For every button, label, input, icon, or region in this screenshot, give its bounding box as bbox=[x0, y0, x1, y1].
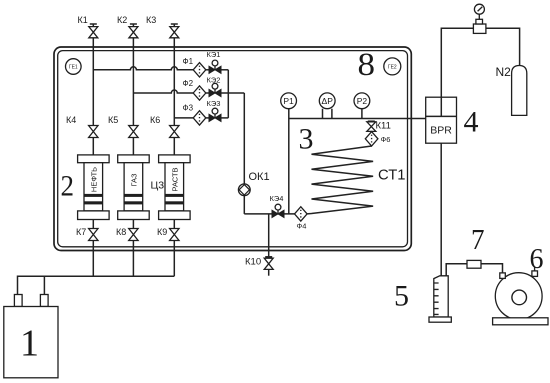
svg-text:К8: К8 bbox=[116, 227, 126, 237]
svg-text:2: 2 bbox=[61, 170, 75, 203]
svg-text:КЭ1: КЭ1 bbox=[207, 50, 221, 59]
svg-text:6: 6 bbox=[530, 244, 544, 275]
svg-text:КЭ4: КЭ4 bbox=[270, 194, 284, 203]
svg-text:КЭ2: КЭ2 bbox=[207, 76, 221, 85]
svg-text:К7: К7 bbox=[76, 227, 86, 237]
svg-text:Ф1: Ф1 bbox=[183, 57, 194, 66]
svg-text:КЭ3: КЭ3 bbox=[207, 99, 221, 108]
svg-text:8: 8 bbox=[358, 47, 376, 83]
svg-text:СТ1: СТ1 bbox=[378, 167, 405, 183]
svg-text:К3: К3 bbox=[146, 15, 156, 25]
svg-text:ОК1: ОК1 bbox=[249, 171, 270, 183]
svg-text:К6: К6 bbox=[150, 115, 160, 125]
svg-text:Ф3: Ф3 bbox=[183, 103, 194, 112]
svg-text:Ф4: Ф4 bbox=[297, 222, 307, 231]
svg-text:5: 5 bbox=[394, 280, 409, 313]
svg-text:К1: К1 bbox=[78, 15, 88, 25]
svg-text:ΔР: ΔР bbox=[322, 96, 334, 106]
svg-text:N2: N2 bbox=[496, 65, 512, 79]
svg-text:Ф2: Ф2 bbox=[183, 79, 194, 88]
svg-text:Р2: Р2 bbox=[357, 96, 368, 106]
svg-text:К2: К2 bbox=[117, 15, 127, 25]
svg-text:Ц3: Ц3 bbox=[151, 180, 165, 192]
svg-text:К4: К4 bbox=[66, 115, 76, 125]
svg-text:РАСТВ: РАСТВ bbox=[170, 167, 179, 191]
svg-text:Р1: Р1 bbox=[283, 96, 294, 106]
svg-text:ГЕ2: ГЕ2 bbox=[388, 64, 397, 70]
svg-text:К10: К10 bbox=[245, 257, 261, 268]
svg-text:1: 1 bbox=[20, 322, 39, 364]
svg-text:BPR: BPR bbox=[430, 125, 452, 137]
svg-text:ГАЗ: ГАЗ bbox=[129, 173, 138, 186]
svg-text:К11: К11 bbox=[376, 121, 391, 132]
svg-text:ГЕ1: ГЕ1 bbox=[69, 64, 78, 70]
svg-text:НЕФТЬ: НЕФТЬ bbox=[89, 167, 98, 192]
svg-text:3: 3 bbox=[299, 123, 314, 156]
svg-text:4: 4 bbox=[464, 106, 479, 139]
svg-text:К9: К9 bbox=[157, 227, 167, 237]
svg-text:7: 7 bbox=[471, 224, 485, 256]
svg-text:К5: К5 bbox=[108, 115, 118, 125]
svg-text:Ф6: Ф6 bbox=[381, 135, 391, 144]
